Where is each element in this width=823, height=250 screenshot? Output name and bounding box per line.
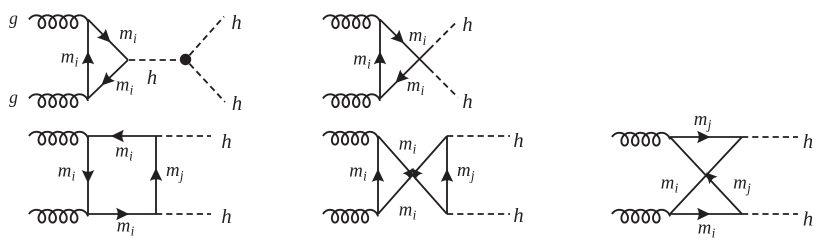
label h d5 bottom	[803, 209, 813, 231]
quark line d1 left side	[87, 20, 89, 99]
label m_j d5 top	[694, 109, 712, 132]
gluon d4 bottom	[323, 210, 378, 223]
label g (top)	[9, 8, 18, 28]
label h d1 lower-right	[232, 93, 242, 115]
arrow d3 left (down)	[82, 170, 94, 183]
arrows d5 at crossing	[706, 172, 718, 184]
arrow d2 left (up)	[374, 51, 386, 64]
higgs line d5 bottom (dashed)	[742, 213, 798, 215]
label m_i d4 top	[399, 134, 417, 157]
svg-text:h: h	[462, 14, 472, 36]
arrow d2 upper diagonal (down-right)	[390, 30, 404, 44]
quark line d4 left side	[377, 136, 379, 214]
label g (bottom)	[9, 87, 18, 107]
arrow d4 right (up)	[441, 169, 453, 182]
label m_i d4 bottom	[399, 200, 417, 223]
arrow d2 lower diagonal (down-left)	[395, 69, 409, 83]
quark line d1 top side	[88, 20, 128, 61]
label m_i d1 bottom	[116, 75, 134, 98]
svg-text:mi: mi	[661, 173, 679, 196]
label m_j d5 right of crossing	[733, 173, 751, 196]
arrow d3 bottom (right)	[116, 208, 129, 220]
vertex blob d1	[180, 54, 191, 65]
svg-text:h: h	[232, 93, 242, 115]
quark line d5 bottom side	[670, 213, 742, 215]
svg-text:mi: mi	[61, 47, 79, 70]
quark line d3 left side	[87, 136, 89, 214]
svg-text:mi: mi	[409, 25, 427, 48]
svg-text:h: h	[231, 12, 241, 34]
quark line d2 left side	[379, 20, 381, 99]
svg-text:mj: mj	[733, 173, 751, 196]
gluon d3 bottom	[29, 210, 88, 223]
label h d2 top	[462, 14, 472, 36]
arrow d3 right (up)	[150, 168, 162, 181]
label h d1 upper-right	[231, 12, 241, 34]
quark diagonal d5 TL-BR	[670, 137, 742, 214]
higgs line d2 to lower h (dashed)	[429, 69, 458, 98]
higgs line d4 bottom (dashed)	[447, 213, 510, 215]
arrow d1 bottom side (down-left)	[101, 72, 115, 85]
label m_i d1 left	[61, 47, 79, 70]
label m_i d1 top	[119, 23, 137, 46]
quark line d3 bottom side	[88, 213, 156, 215]
label m_i d5 bottom	[698, 218, 716, 241]
label h d4 bottom	[513, 205, 523, 227]
label m_i d4 left	[349, 161, 367, 184]
arrows d4 at crossing	[403, 168, 423, 180]
gluon d2 top	[323, 15, 380, 28]
label m_j d4 right	[457, 160, 475, 183]
svg-text:mi: mi	[349, 161, 367, 184]
label m_i d3 bottom	[117, 216, 135, 239]
gluon d4 top	[323, 132, 378, 145]
higgs line d5 top (dashed)	[742, 136, 798, 138]
svg-text:h: h	[147, 67, 157, 89]
gluon d2 bottom	[323, 94, 380, 107]
svg-text:h: h	[803, 131, 813, 153]
quark line d5 top side	[670, 136, 742, 138]
higgs propagator h (dashed) d1	[129, 59, 180, 61]
higgs line d3 bottom (dashed)	[156, 213, 211, 215]
svg-text:mi: mi	[116, 75, 134, 98]
quark diagonal d5 BL-TR	[670, 137, 742, 214]
svg-text:mi: mi	[407, 75, 425, 98]
higgs line d3 top (dashed)	[156, 135, 211, 137]
quark line d2 upper diagonal	[380, 20, 429, 69]
label h d3 top	[221, 131, 231, 153]
quark line d3 right side	[155, 136, 157, 214]
gluon g1 (d1 top)	[29, 15, 88, 28]
svg-text:h: h	[221, 131, 231, 153]
label m_i d2 left	[353, 49, 371, 72]
svg-text:h: h	[803, 209, 813, 231]
arrow d3 top (left)	[111, 130, 124, 142]
quark diagonal d4 TL-BR	[378, 136, 447, 214]
svg-text:g: g	[9, 87, 18, 107]
label h d2 bottom	[462, 91, 472, 113]
quark diagonal d4 BL-TR	[378, 136, 447, 214]
label h d3 bottom	[221, 206, 231, 228]
label h d5 top	[803, 131, 813, 153]
label m_i d3 left	[58, 161, 76, 184]
svg-text:mj: mj	[457, 160, 475, 183]
svg-text:mi: mi	[353, 49, 371, 72]
quark line d1 bottom side	[88, 60, 128, 99]
quark line d2 lower diagonal	[380, 50, 429, 99]
label m_i d5 left of crossing	[661, 173, 679, 196]
gluon g2 (d1 bottom)	[29, 94, 88, 107]
quark line d4 right side	[446, 136, 448, 214]
label m_i d2 upper	[409, 25, 427, 48]
svg-text:mi: mi	[58, 161, 76, 184]
label m_i d2 lower	[407, 75, 425, 98]
svg-text:mi: mi	[698, 218, 716, 241]
label h d1 propagator	[147, 67, 157, 89]
svg-text:h: h	[462, 91, 472, 113]
gluon d3 top	[29, 132, 88, 145]
svg-text:h: h	[513, 205, 523, 227]
higgs line d4 top (dashed)	[447, 135, 510, 137]
arrow d1 left (up)	[82, 51, 94, 64]
svg-text:mi: mi	[115, 141, 133, 164]
svg-text:mi: mi	[399, 200, 417, 223]
arrow d4 left (up)	[372, 169, 384, 182]
arrow d5 top (right)	[697, 131, 710, 143]
quark line d3 top side	[88, 135, 156, 137]
svg-text:mj: mj	[694, 109, 712, 132]
higgs line d2 to upper h (dashed)	[429, 22, 457, 50]
svg-text:mj: mj	[166, 160, 184, 183]
arrow d5 bottom (right)	[697, 208, 710, 220]
svg-text:mi: mi	[117, 216, 135, 239]
svg-text:h: h	[513, 130, 523, 152]
svg-text:mi: mi	[399, 134, 417, 157]
svg-text:g: g	[9, 8, 18, 28]
higgs line d1 upper-right (dashed)	[190, 17, 225, 56]
label h d4 top	[513, 130, 523, 152]
label m_i d3 top	[115, 141, 133, 164]
higgs line d1 lower-right (dashed)	[190, 64, 226, 102]
arrow d1 top side (down-right)	[97, 29, 111, 43]
label m_j d3 right	[166, 160, 184, 183]
gluon d5 bottom	[612, 210, 670, 223]
svg-text:mi: mi	[119, 23, 137, 46]
gluon d5 top	[612, 133, 670, 146]
svg-text:h: h	[221, 206, 231, 228]
